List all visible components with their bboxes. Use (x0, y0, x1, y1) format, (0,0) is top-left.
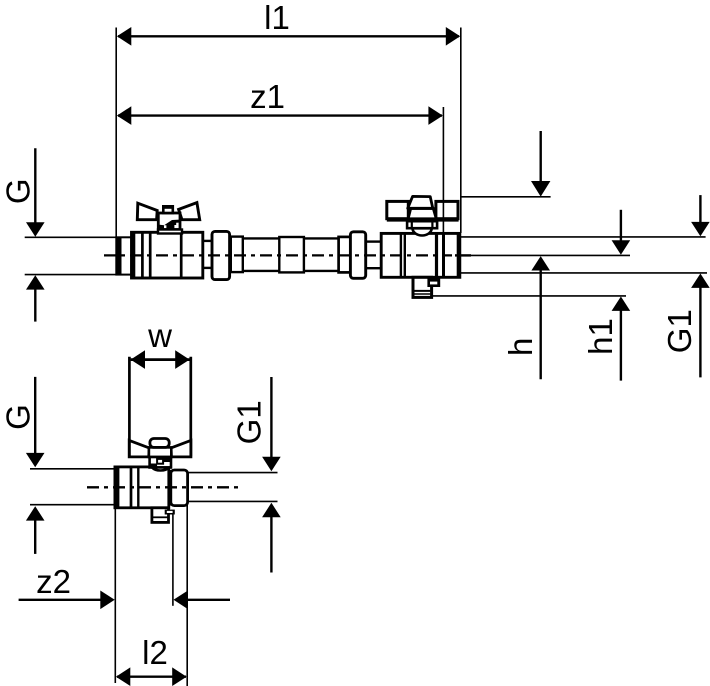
middle pipe top (243, 237, 339, 239)
G1 reference line bottom (460, 272, 708, 274)
left handle hub (158, 213, 180, 230)
extension line l1 right (460, 28, 462, 234)
bottom stem details (163, 458, 171, 462)
right handle mid dome (408, 209, 436, 219)
left valve socket end band (132, 233, 136, 278)
left pipe end cap (117, 237, 122, 275)
G reference line top (pipe top extended left) (25, 236, 117, 238)
bottom valve joint line (170, 470, 172, 506)
left valve bead line 2 (149, 232, 152, 278)
svg-text:h: h (502, 338, 539, 356)
union nut left (212, 231, 230, 279)
svg-text:w: w (147, 317, 172, 354)
G1 reference lines bottom view (188, 472, 278, 474)
right valve stem ball (413, 228, 432, 235)
union nut right (350, 232, 365, 278)
cone transition (231, 237, 243, 273)
svg-text:G1: G1 (231, 400, 268, 444)
dimension l1 (118, 35, 459, 37)
centerline main axis (104, 254, 452, 256)
right valve body line pair a (400, 233, 402, 277)
bottom handle right wing (171, 440, 191, 457)
svg-text:G: G (0, 178, 36, 204)
left pipe stub (116, 237, 135, 274)
right handle left wing (387, 201, 409, 218)
svg-text:z1: z1 (250, 78, 285, 115)
h1 reference line (drain bottom) (433, 295, 626, 297)
centerline dash across end cap (455, 254, 471, 256)
svg-text:l2: l2 (142, 634, 168, 671)
axis thin line right of valve (471, 254, 630, 256)
G reference lines bottom view (30, 468, 115, 470)
right valve body thick line (435, 233, 438, 277)
h reference line (461, 196, 551, 198)
drain valve cap lines (414, 290, 430, 292)
bottom valve body (115, 467, 169, 508)
dimension h1 (620, 210, 622, 242)
middle sleeve (279, 237, 304, 272)
left valve bead line 1 (141, 232, 144, 278)
step ring (339, 237, 351, 273)
extension line A (valve left end) (114, 509, 116, 683)
svg-text:G: G (0, 404, 36, 430)
left handle left wing (137, 203, 157, 220)
centerline bottom axis (87, 486, 243, 488)
left handle right wing (179, 203, 200, 220)
extension line left (l1/z1) (115, 28, 117, 237)
right valve end cap (457, 234, 461, 276)
right valve body (381, 233, 460, 277)
middle pipe bottom (243, 270, 339, 272)
extension line z1 right (442, 107, 444, 232)
svg-text:G1: G1 (661, 309, 698, 353)
dimension z1 (118, 114, 442, 116)
left valve body (132, 232, 203, 278)
dimension h (540, 131, 542, 184)
bottom drain nib (165, 510, 175, 515)
right handle right wing (436, 201, 458, 218)
right neck (366, 240, 382, 242)
left handle cap (163, 206, 173, 213)
G reference line bottom (pipe bottom extended left) (25, 274, 117, 276)
drain valve nib (428, 279, 440, 287)
right valve stem plates (407, 221, 437, 228)
left handle hub detail (159, 220, 180, 229)
extension line B (z2) (172, 513, 174, 606)
bottom handle left wing (129, 440, 149, 457)
left handle stem flange (158, 230, 182, 234)
bottom stem (150, 457, 171, 468)
right valve body line pair b (404, 233, 406, 277)
svg-text:l1: l1 (264, 0, 290, 36)
bottom handle hub block (149, 447, 171, 457)
svg-text:h1: h1 (582, 318, 619, 355)
bottom valve end cap (115, 467, 119, 507)
extension line C (l2) (186, 503, 188, 686)
bottom valve bead line 1 (130, 467, 133, 508)
bottom valve bead line 2 (137, 467, 139, 508)
bottom handle cap (150, 439, 169, 448)
right handle top cap (408, 196, 433, 208)
G1 reference line top (460, 236, 706, 238)
left valve body line (180, 232, 183, 278)
bottom stem ball (152, 467, 169, 470)
bottom union nut (171, 470, 188, 506)
bottom drain body (152, 508, 169, 523)
right valve stem base bar (387, 218, 459, 221)
left valve neck (203, 240, 213, 242)
svg-text:z2: z2 (36, 563, 71, 600)
right valve bead line (442, 233, 445, 277)
drain valve body (413, 277, 432, 297)
dimension G1 main (699, 195, 701, 223)
